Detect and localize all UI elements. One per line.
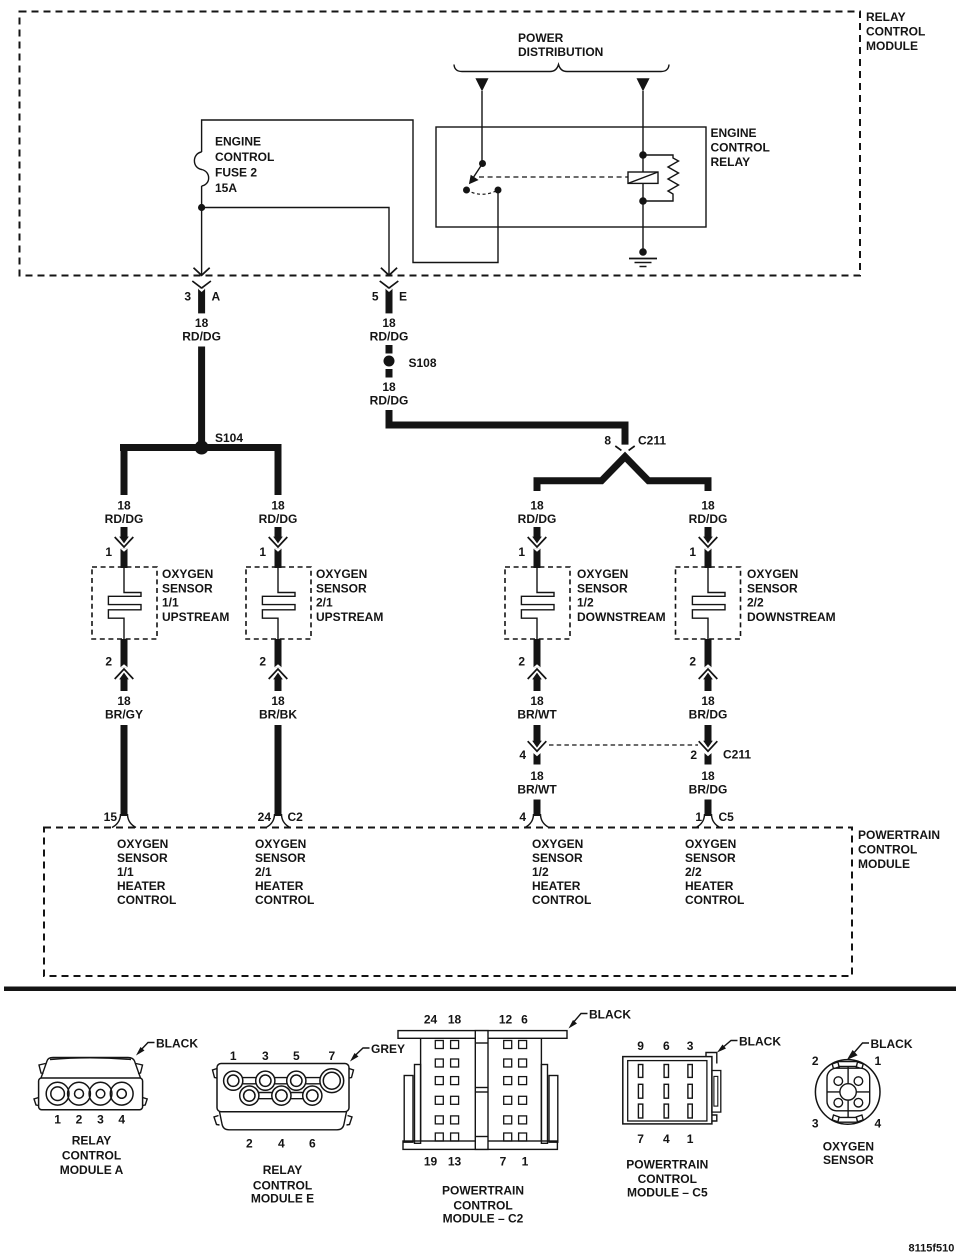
svg-text:18: 18 <box>530 769 544 783</box>
svg-text:MODULE A: MODULE A <box>60 1163 124 1177</box>
connector arrow at E <box>381 268 397 276</box>
connector E pin 3 <box>256 1071 275 1090</box>
junction dot fuse output <box>198 204 205 211</box>
wire c3 to C211 <box>534 725 541 741</box>
svg-text:POWER: POWER <box>518 31 564 45</box>
svg-text:1: 1 <box>54 1113 61 1127</box>
svg-text:SENSOR: SENSOR <box>685 851 736 865</box>
heater element 2/2 <box>692 568 725 639</box>
svg-text:1: 1 <box>687 1132 694 1146</box>
wire E lower segment <box>386 369 393 378</box>
connector A pin 4 <box>110 1082 133 1105</box>
svg-text:RD/DG: RD/DG <box>370 330 409 344</box>
svg-text:18: 18 <box>701 694 715 708</box>
svg-text:1: 1 <box>259 545 266 559</box>
svg-text:OXYGEN: OXYGEN <box>117 837 168 851</box>
connector A pin 1 <box>46 1082 69 1105</box>
svg-text:E: E <box>399 290 407 304</box>
svg-text:1/1: 1/1 <box>117 865 134 879</box>
svg-text:24: 24 <box>258 810 272 824</box>
svg-text:OXYGEN: OXYGEN <box>577 567 628 581</box>
column 2 wire into sensor <box>275 527 282 537</box>
svg-text:DOWNSTREAM: DOWNSTREAM <box>747 610 836 624</box>
svg-text:BR/GY: BR/GY <box>105 708 143 722</box>
wire junction down to A <box>201 208 203 276</box>
svg-text:4: 4 <box>519 748 526 762</box>
svg-text:BR/DG: BR/DG <box>689 783 728 797</box>
oxygen sensor 1/1 box <box>92 567 157 639</box>
oxygen sensor connector dividers <box>847 1066 849 1114</box>
svg-text:DOWNSTREAM: DOWNSTREAM <box>577 610 666 624</box>
column 1 below sensor <box>121 639 128 667</box>
connector A pin 3 <box>89 1082 112 1105</box>
wire S108 to C211 elbow <box>389 410 625 445</box>
svg-text:MODULE – C5: MODULE – C5 <box>627 1186 708 1200</box>
svg-text:18: 18 <box>117 499 131 513</box>
svg-text:1: 1 <box>875 1054 882 1068</box>
svg-text:SENSOR: SENSOR <box>532 851 583 865</box>
column 3 wire into sensor <box>534 527 541 537</box>
svg-text:OXYGEN: OXYGEN <box>823 1140 874 1154</box>
connector C5 right tab <box>712 1071 721 1113</box>
dashed actuation line switch to coil <box>479 176 628 178</box>
svg-text:RELAY: RELAY <box>72 1134 112 1148</box>
svg-text:2: 2 <box>689 655 696 669</box>
svg-text:RELAY: RELAY <box>866 10 906 24</box>
svg-text:CONTROL: CONTROL <box>253 1179 312 1193</box>
S104 dot <box>195 441 209 455</box>
wire E upper segment <box>386 345 393 354</box>
wire fuse top run <box>202 120 498 263</box>
connector E body <box>217 1064 349 1112</box>
svg-text:BLACK: BLACK <box>589 1008 631 1022</box>
svg-text:8115f510: 8115f510 <box>909 1243 955 1255</box>
svg-text:19: 19 <box>424 1155 438 1169</box>
svg-text:CONTROL: CONTROL <box>62 1149 121 1163</box>
wire end flare c4 <box>696 814 705 828</box>
svg-text:1: 1 <box>689 545 696 559</box>
connector E pin 4 <box>272 1086 291 1105</box>
connector chevron E <box>380 281 399 288</box>
feed arrow right <box>637 78 650 91</box>
svg-text:SENSOR: SENSOR <box>117 851 168 865</box>
oxygen sensor connector bottom key band <box>837 1117 859 1122</box>
svg-text:12: 12 <box>499 1013 513 1027</box>
wire junction to E drop <box>202 208 389 276</box>
svg-text:3: 3 <box>184 290 191 304</box>
svg-text:RD/DG: RD/DG <box>518 512 557 526</box>
svg-text:18: 18 <box>271 499 285 513</box>
oxygen sensor 2/1 box <box>246 567 311 639</box>
connector C2 central channel <box>475 1031 488 1150</box>
svg-text:18: 18 <box>701 499 715 513</box>
feed arrow left <box>475 78 488 91</box>
svg-text:HEATER: HEATER <box>532 879 581 893</box>
svg-text:BR/WT: BR/WT <box>517 708 557 722</box>
heater element 2/1 <box>262 568 295 639</box>
svg-text:18: 18 <box>195 316 209 330</box>
svg-text:18: 18 <box>530 694 544 708</box>
relay coil node top dot <box>639 151 647 159</box>
pin 3 stub A <box>198 289 205 314</box>
connector C5 pin slots <box>638 1065 692 1119</box>
svg-text:CONTROL: CONTROL <box>858 843 917 857</box>
fuse element squiggle <box>194 152 208 186</box>
relay coil diagonal <box>628 172 658 183</box>
svg-text:3: 3 <box>812 1117 819 1131</box>
svg-text:RD/DG: RD/DG <box>182 330 221 344</box>
svg-text:HEATER: HEATER <box>255 879 304 893</box>
svg-text:1/2: 1/2 <box>532 865 549 879</box>
svg-text:GREY: GREY <box>371 1042 405 1056</box>
svg-text:1: 1 <box>105 545 112 559</box>
svg-text:MODULE – C2: MODULE – C2 <box>443 1212 524 1226</box>
svg-text:UPSTREAM: UPSTREAM <box>162 610 229 624</box>
connector arrow at A <box>194 268 210 276</box>
svg-text:18: 18 <box>530 499 544 513</box>
oxygen sensor connector center <box>840 1084 856 1100</box>
svg-text:SENSOR: SENSOR <box>577 581 628 595</box>
connector C2 bottom flange <box>403 1141 557 1149</box>
ground symbol <box>629 258 657 260</box>
C211 splitter tent <box>537 457 708 491</box>
relay switch contact dot right <box>495 187 502 194</box>
svg-text:SENSOR: SENSOR <box>162 581 213 595</box>
svg-text:POWERTRAIN: POWERTRAIN <box>442 1184 524 1198</box>
svg-text:CONTROL: CONTROL <box>117 893 176 907</box>
svg-text:7: 7 <box>637 1132 644 1146</box>
connector E pin 7 <box>320 1069 344 1093</box>
svg-text:CONTROL: CONTROL <box>215 150 274 164</box>
connector C2 top flange <box>398 1031 567 1039</box>
column 4 wire into sensor <box>705 527 712 537</box>
svg-text:13: 13 <box>448 1155 462 1169</box>
svg-text:BR/WT: BR/WT <box>517 783 557 797</box>
svg-text:HEATER: HEATER <box>117 879 166 893</box>
wire fuse to junction <box>201 186 203 208</box>
coil parallel resistor branch <box>643 155 679 201</box>
connector C5 bottom right ear <box>712 1115 717 1121</box>
svg-text:OXYGEN: OXYGEN <box>162 567 213 581</box>
connector C2 body <box>421 1038 542 1141</box>
svg-text:4: 4 <box>118 1113 125 1127</box>
svg-text:RD/DG: RD/DG <box>370 394 409 408</box>
svg-text:ENGINE: ENGINE <box>215 135 261 149</box>
svg-text:18: 18 <box>117 694 131 708</box>
svg-text:4: 4 <box>663 1132 670 1146</box>
svg-text:BLACK: BLACK <box>871 1037 913 1051</box>
C211 connector chevron <box>615 446 634 450</box>
relay switch contact dot left <box>463 187 470 194</box>
svg-text:1/2: 1/2 <box>577 596 594 610</box>
svg-text:18: 18 <box>271 694 285 708</box>
svg-text:2: 2 <box>259 655 266 669</box>
S104 splice bar <box>120 444 282 451</box>
svg-text:SENSOR: SENSOR <box>255 851 306 865</box>
connector E pin 5 <box>287 1071 306 1090</box>
relay coil node bottom dot <box>639 197 647 205</box>
wire c4 to PCM <box>705 800 712 817</box>
svg-text:1: 1 <box>230 1049 237 1063</box>
svg-text:2: 2 <box>812 1054 819 1068</box>
svg-text:C5: C5 <box>719 810 735 824</box>
svg-text:FUSE 2: FUSE 2 <box>215 166 257 180</box>
svg-text:MODULE E: MODULE E <box>251 1192 314 1206</box>
svg-text:BLACK: BLACK <box>156 1037 198 1051</box>
switch dashed arc <box>467 190 499 194</box>
relay switch blade with arrowhead <box>472 164 483 180</box>
svg-text:7: 7 <box>500 1155 507 1169</box>
svg-text:RELAY: RELAY <box>711 155 751 169</box>
connector A pin 2 <box>68 1082 91 1105</box>
svg-text:OXYGEN: OXYGEN <box>316 567 367 581</box>
svg-text:1/1: 1/1 <box>162 596 179 610</box>
svg-text:2: 2 <box>246 1137 253 1151</box>
svg-text:OXYGEN: OXYGEN <box>685 837 736 851</box>
column 3 below sensor <box>534 639 541 667</box>
wire A to S104 <box>198 347 205 448</box>
ground dot <box>639 248 647 256</box>
svg-text:CONTROL: CONTROL <box>532 893 591 907</box>
svg-text:18: 18 <box>701 769 715 783</box>
svg-text:CONTROL: CONTROL <box>453 1199 512 1213</box>
relay control module dashed box <box>20 12 861 276</box>
svg-text:C211: C211 <box>638 434 666 448</box>
connector C2 pin holes <box>435 1041 526 1142</box>
wire end flare c2 <box>266 814 275 828</box>
svg-text:3: 3 <box>97 1113 104 1127</box>
svg-text:S104: S104 <box>215 431 243 445</box>
svg-text:OXYGEN: OXYGEN <box>747 567 798 581</box>
svg-text:18: 18 <box>382 316 396 330</box>
S104 left branch <box>121 444 128 495</box>
connector E skirt <box>220 1112 347 1130</box>
svg-text:SENSOR: SENSOR <box>747 581 798 595</box>
svg-text:C211: C211 <box>723 748 751 762</box>
oxygen sensor connector outer circle <box>815 1060 880 1125</box>
S104 right branch <box>275 444 282 495</box>
svg-text:RELAY: RELAY <box>263 1163 303 1177</box>
connector E pin 1 <box>224 1071 243 1090</box>
oxygen sensor connector pins <box>834 1077 843 1086</box>
svg-text:3: 3 <box>262 1049 269 1063</box>
svg-text:5: 5 <box>372 290 379 304</box>
connector E slot bars bottom row <box>249 1092 312 1094</box>
connector A hood tabs <box>39 1064 46 1074</box>
powertrain control module dashed box <box>44 828 852 977</box>
svg-text:OXYGEN: OXYGEN <box>255 837 306 851</box>
connector E pin 6 <box>303 1086 322 1105</box>
svg-text:1: 1 <box>518 545 525 559</box>
connector C2 left rails <box>404 1076 413 1143</box>
wire c2 to PCM <box>275 725 282 816</box>
svg-text:CONTROL: CONTROL <box>685 893 744 907</box>
svg-text:POWERTRAIN: POWERTRAIN <box>626 1158 708 1172</box>
svg-text:A: A <box>212 290 221 304</box>
svg-text:2: 2 <box>690 748 697 762</box>
splice S108 dot <box>384 356 395 367</box>
svg-text:2: 2 <box>76 1113 83 1127</box>
section separator bar <box>4 987 956 992</box>
wire from right feed arrow to coil <box>642 91 644 252</box>
oxygen sensor connector clover <box>827 1068 870 1111</box>
heater element 1/2 <box>521 568 554 639</box>
svg-text:S108: S108 <box>409 356 437 370</box>
connector A body hood <box>41 1058 141 1079</box>
connector E slot bars top row <box>233 1077 332 1079</box>
svg-text:7: 7 <box>328 1049 335 1063</box>
svg-text:RD/DG: RD/DG <box>105 512 144 526</box>
column 1 wire into sensor <box>121 527 128 537</box>
power distribution bracket <box>454 65 669 72</box>
connector E pin 2 <box>240 1086 259 1105</box>
svg-text:2/1: 2/1 <box>316 596 333 610</box>
svg-text:15: 15 <box>104 810 118 824</box>
engine control relay box <box>436 127 706 227</box>
svg-text:CONTROL: CONTROL <box>255 893 314 907</box>
svg-text:RD/DG: RD/DG <box>689 512 728 526</box>
svg-text:6: 6 <box>309 1137 316 1151</box>
pin 5 stub E <box>386 289 393 314</box>
svg-text:CONTROL: CONTROL <box>711 141 770 155</box>
relay switch common dot <box>479 160 486 167</box>
oxygen sensor 1/2 box <box>505 567 570 639</box>
svg-text:BR/DG: BR/DG <box>689 708 728 722</box>
svg-text:4: 4 <box>278 1137 285 1151</box>
svg-text:1: 1 <box>522 1155 529 1169</box>
svg-text:CONTROL: CONTROL <box>866 25 925 39</box>
svg-text:UPSTREAM: UPSTREAM <box>316 610 383 624</box>
svg-text:OXYGEN: OXYGEN <box>532 837 583 851</box>
wire c3 to PCM <box>534 800 541 817</box>
svg-text:15A: 15A <box>215 181 237 195</box>
svg-text:3: 3 <box>687 1039 694 1053</box>
connector chevron A <box>192 281 211 288</box>
svg-text:2: 2 <box>105 655 112 669</box>
column 2 below sensor <box>275 639 282 667</box>
svg-text:18: 18 <box>448 1013 462 1027</box>
relay coil box <box>628 172 658 183</box>
connector E corner tabs <box>213 1069 218 1079</box>
svg-text:8: 8 <box>604 434 611 448</box>
heater element 1/1 <box>108 568 141 639</box>
oxygen sensor connector top key band <box>837 1062 859 1067</box>
svg-text:5: 5 <box>293 1049 300 1063</box>
svg-text:4: 4 <box>519 810 526 824</box>
svg-text:24: 24 <box>424 1013 438 1027</box>
svg-text:BR/BK: BR/BK <box>259 708 297 722</box>
svg-text:SENSOR: SENSOR <box>316 581 367 595</box>
svg-text:2/2: 2/2 <box>747 596 764 610</box>
svg-text:MODULE: MODULE <box>866 39 918 53</box>
svg-text:BLACK: BLACK <box>739 1035 781 1049</box>
svg-text:ENGINE: ENGINE <box>711 126 757 140</box>
connector C5 outer body <box>623 1057 712 1124</box>
wire end flare c1 <box>112 814 121 828</box>
svg-text:4: 4 <box>875 1117 882 1131</box>
column 4 below sensor <box>705 639 712 667</box>
svg-text:2: 2 <box>518 655 525 669</box>
wire c1 to PCM <box>121 725 128 816</box>
connector A main body <box>39 1078 143 1110</box>
svg-text:SENSOR: SENSOR <box>823 1153 874 1167</box>
svg-text:6: 6 <box>663 1039 670 1053</box>
connector C5 top right ear <box>706 1053 717 1064</box>
svg-text:6: 6 <box>521 1013 528 1027</box>
svg-text:C2: C2 <box>288 810 304 824</box>
svg-text:1: 1 <box>695 810 702 824</box>
svg-text:HEATER: HEATER <box>685 879 734 893</box>
wire from left feed arrow to switch <box>481 91 483 163</box>
C211 dashed connector line <box>549 744 698 746</box>
svg-text:RD/DG: RD/DG <box>259 512 298 526</box>
wire c4 to C211 <box>705 725 712 741</box>
connector A side tabs <box>34 1098 39 1106</box>
oxygen sensor 2/2 box <box>676 567 741 639</box>
svg-text:DISTRIBUTION: DISTRIBUTION <box>518 45 603 59</box>
svg-text:2/2: 2/2 <box>685 865 702 879</box>
svg-text:MODULE: MODULE <box>858 857 910 871</box>
connector C2 right rails <box>541 1065 547 1144</box>
svg-text:2/1: 2/1 <box>255 865 272 879</box>
svg-text:9: 9 <box>637 1039 644 1053</box>
svg-text:18: 18 <box>382 380 396 394</box>
wire end flare c3 <box>525 814 534 828</box>
svg-text:CONTROL: CONTROL <box>638 1172 697 1186</box>
svg-text:POWERTRAIN: POWERTRAIN <box>858 828 940 842</box>
